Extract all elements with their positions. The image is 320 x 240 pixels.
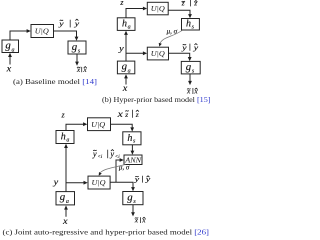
svg-text:<i: <i xyxy=(98,155,103,160)
box h_a (b) xyxy=(117,18,135,31)
svg-text:g: g xyxy=(186,62,191,73)
node label y-tilde_lt-i | y-hat_lt-i (c) xyxy=(92,149,120,160)
box U|Q lower (c) xyxy=(88,176,110,189)
wire top U|Q to h_s (c) xyxy=(111,124,135,131)
input arrow x (c) xyxy=(62,205,69,226)
box g_a (c) xyxy=(56,192,75,206)
output arrow (a) xyxy=(75,54,79,66)
box g_a (b) xyxy=(117,61,134,74)
wire g_a to U|Q (a) xyxy=(10,29,31,40)
svg-text:a: a xyxy=(128,69,131,75)
box g_s (a) xyxy=(68,41,86,55)
box g_s (c) xyxy=(123,192,143,206)
svg-text:U|Q: U|Q xyxy=(35,27,49,36)
box h_a (c) xyxy=(56,131,74,144)
input arrow x (a) xyxy=(6,53,13,75)
node label y-tilde | y-hat (c) xyxy=(133,174,151,183)
wire h_a to top U|Q, node z (c) xyxy=(61,111,88,131)
box h_s (b) xyxy=(182,19,200,31)
wire lower U|Q to g_s (c) xyxy=(110,182,135,191)
svg-text:g: g xyxy=(72,42,77,53)
svg-text:(c) Joint auto-regressive and: (c) Joint auto-regressive and hyper-prio… xyxy=(3,228,210,237)
output label x-tilde|x-hat (c) xyxy=(134,216,147,225)
input arrow x (b) xyxy=(122,74,129,94)
svg-text:x: x xyxy=(62,217,69,227)
box U|Q lower (b) xyxy=(147,47,168,60)
wire U|Q to g_s (a) xyxy=(54,31,79,41)
output arrow (c) xyxy=(131,205,135,217)
wire top U|Q to h_s (b) xyxy=(168,10,192,18)
svg-text:U|Q: U|Q xyxy=(151,4,165,13)
curved arrow mu,sigma (c) xyxy=(99,163,130,175)
svg-text:x: x xyxy=(82,65,87,74)
box U|Q top (c) xyxy=(88,118,111,131)
svg-text:x: x xyxy=(141,216,146,225)
node label y-tilde | y-hat (a) xyxy=(58,19,80,28)
output label x-tilde|x-hat (a) xyxy=(76,65,88,74)
node label x z-tilde | z-hat (c) xyxy=(116,109,139,119)
svg-text:<i: <i xyxy=(115,155,120,160)
svg-text:g: g xyxy=(60,192,65,203)
box h_s (c) xyxy=(123,132,141,145)
svg-text:U|Q: U|Q xyxy=(91,120,105,129)
box g_a (a) xyxy=(2,40,19,53)
svg-text:y: y xyxy=(73,19,80,28)
box ANN (c) xyxy=(124,155,142,165)
node label y-tilde | y-hat (b) xyxy=(181,43,199,52)
wire h_a to top U|Q, node z (b) xyxy=(119,0,147,18)
svg-text:x: x xyxy=(122,84,129,94)
node y branch (b) xyxy=(118,43,147,55)
svg-text:x: x xyxy=(6,65,13,75)
hook wire from output to ANN (c) xyxy=(116,158,124,182)
svg-text:x: x xyxy=(76,65,81,74)
wire g_a to h_a (c) xyxy=(64,144,68,192)
node label z-tilde | z-hat (b) xyxy=(181,0,198,8)
svg-text:h: h xyxy=(61,132,66,143)
output arrow (b) xyxy=(188,74,192,85)
node y branch (c) xyxy=(52,176,87,186)
svg-text:g: g xyxy=(5,41,10,52)
svg-text:y: y xyxy=(133,174,140,183)
svg-text:y: y xyxy=(118,43,124,53)
svg-text:a: a xyxy=(12,47,15,53)
svg-text:(a) Baseline model [14]: (a) Baseline model [14] xyxy=(13,77,97,86)
svg-text:μ, σ: μ, σ xyxy=(119,163,130,171)
svg-text:g: g xyxy=(122,62,127,73)
svg-text:x: x xyxy=(134,216,139,225)
box g_s (b) xyxy=(181,61,200,74)
svg-text:g: g xyxy=(127,192,132,203)
curved arrow mu,sigma (b) xyxy=(159,28,182,47)
svg-text:a: a xyxy=(66,137,69,143)
svg-text:(b) Hyper-prior based model [1: (b) Hyper-prior based model [15] xyxy=(102,95,211,104)
wire g_a to h_a (b) xyxy=(124,31,128,61)
svg-text:h: h xyxy=(127,133,132,144)
svg-text:U|Q: U|Q xyxy=(92,178,106,187)
output label x-tilde|x-hat (b) xyxy=(186,86,198,95)
svg-text:h: h xyxy=(122,19,127,30)
svg-text:μ, σ: μ, σ xyxy=(167,28,178,36)
box U|Q top (b) xyxy=(147,2,168,15)
box U|Q (a) xyxy=(31,25,54,38)
svg-text:x: x xyxy=(116,109,123,119)
svg-text:h: h xyxy=(186,19,191,30)
svg-text:y: y xyxy=(181,43,188,52)
wire h_s to ANN (c) xyxy=(131,145,135,155)
svg-text:a: a xyxy=(66,199,69,205)
svg-text:y: y xyxy=(52,176,58,186)
wire lower U|Q to g_s (b) xyxy=(169,53,192,61)
svg-text:U|Q: U|Q xyxy=(151,49,165,58)
svg-text:a: a xyxy=(128,24,131,30)
